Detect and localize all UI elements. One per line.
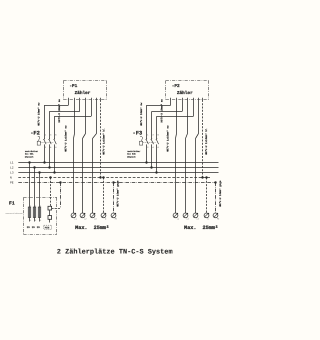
svg-text:4: 4 xyxy=(152,146,154,149)
svg-text:1: 1 xyxy=(35,204,36,207)
svg-text:1: 1 xyxy=(30,204,31,207)
svg-text:L1: L1 xyxy=(75,218,77,221)
svg-text:1: 1 xyxy=(40,204,41,207)
svg-text:2 Zählerplätze TN-C-S System: 2 Zählerplätze TN-C-S System xyxy=(57,249,173,257)
svg-text:PE: PE xyxy=(115,218,117,221)
svg-text:25mm²: 25mm² xyxy=(203,225,219,231)
svg-text:H07V-U 10mm² sw: H07V-U 10mm² sw xyxy=(38,102,41,126)
svg-text:2: 2 xyxy=(40,219,41,222)
svg-text:L2: L2 xyxy=(187,218,189,221)
svg-text:L2: L2 xyxy=(10,167,14,170)
svg-text:2: 2 xyxy=(147,146,149,149)
svg-text:möglich: möglich xyxy=(25,155,34,158)
svg-text:-P2: -P2 xyxy=(172,84,180,89)
svg-text:2: 2 xyxy=(35,219,36,222)
svg-text:5: 5 xyxy=(158,134,160,137)
svg-text:N: N xyxy=(10,177,12,180)
svg-text:2: 2 xyxy=(30,219,31,222)
svg-text:L3: L3 xyxy=(197,218,199,221)
svg-text:2: 2 xyxy=(45,146,47,149)
svg-text:PE: PE xyxy=(217,218,219,221)
svg-text:PE: PE xyxy=(10,182,14,185)
svg-text:N: N xyxy=(105,218,106,221)
svg-text:H07V-U 16mm² gnge: H07V-U 16mm² gnge xyxy=(219,180,222,207)
svg-text:H07V-U 16mm² gnge: H07V-U 16mm² gnge xyxy=(117,180,120,207)
svg-text:H07V-U 1x16mm² sw: H07V-U 1x16mm² sw xyxy=(167,125,170,152)
svg-text:L1: L1 xyxy=(10,162,14,165)
svg-text:25mm²: 25mm² xyxy=(94,225,110,231)
svg-text:-F3: -F3 xyxy=(133,130,143,136)
svg-text:Max.: Max. xyxy=(75,225,87,231)
svg-text:H07V-U 10mm² sw: H07V-U 10mm² sw xyxy=(140,102,143,126)
svg-text:-F2: -F2 xyxy=(30,130,40,136)
svg-text:L3: L3 xyxy=(94,218,96,221)
svg-text:35: 35 xyxy=(32,226,36,229)
svg-text:H07V-U 10mm² sw: H07V-U 10mm² sw xyxy=(58,99,61,123)
svg-text:6: 6 xyxy=(158,146,160,149)
svg-text:Hausanschlußkasten: Hausanschlußkasten xyxy=(6,212,23,215)
svg-text:1: 1 xyxy=(147,134,149,137)
svg-text:F1: F1 xyxy=(9,201,15,207)
svg-text:H07V-U 10mm² sw: H07V-U 10mm² sw xyxy=(161,99,164,123)
svg-text:PEN: PEN xyxy=(45,226,50,229)
svg-text:5: 5 xyxy=(55,134,57,137)
svg-text:35: 35 xyxy=(27,226,31,229)
svg-text:Zähler: Zähler xyxy=(177,90,193,96)
svg-text:L1: L1 xyxy=(177,218,179,221)
svg-text:Max.: Max. xyxy=(184,225,196,231)
svg-text:4: 4 xyxy=(50,146,52,149)
svg-text:L2: L2 xyxy=(84,218,86,221)
svg-text:1: 1 xyxy=(45,134,47,137)
svg-text:H07V-U 1x16mm² sw: H07V-U 1x16mm² sw xyxy=(64,125,67,152)
svg-text:N: N xyxy=(207,218,208,221)
svg-text:3: 3 xyxy=(50,134,52,137)
svg-text:H07V-U 1x16mm² bl: H07V-U 1x16mm² bl xyxy=(205,128,208,155)
svg-text:L3: L3 xyxy=(10,172,14,175)
svg-text:-P1: -P1 xyxy=(69,84,77,89)
svg-text:35: 35 xyxy=(37,226,41,229)
svg-text:möglich: möglich xyxy=(127,155,136,158)
svg-text:Zähler: Zähler xyxy=(75,90,91,96)
svg-text:3: 3 xyxy=(152,134,154,137)
svg-text:H07V-U 1x16mm² bl: H07V-U 1x16mm² bl xyxy=(103,128,106,155)
svg-text:6: 6 xyxy=(55,146,57,149)
